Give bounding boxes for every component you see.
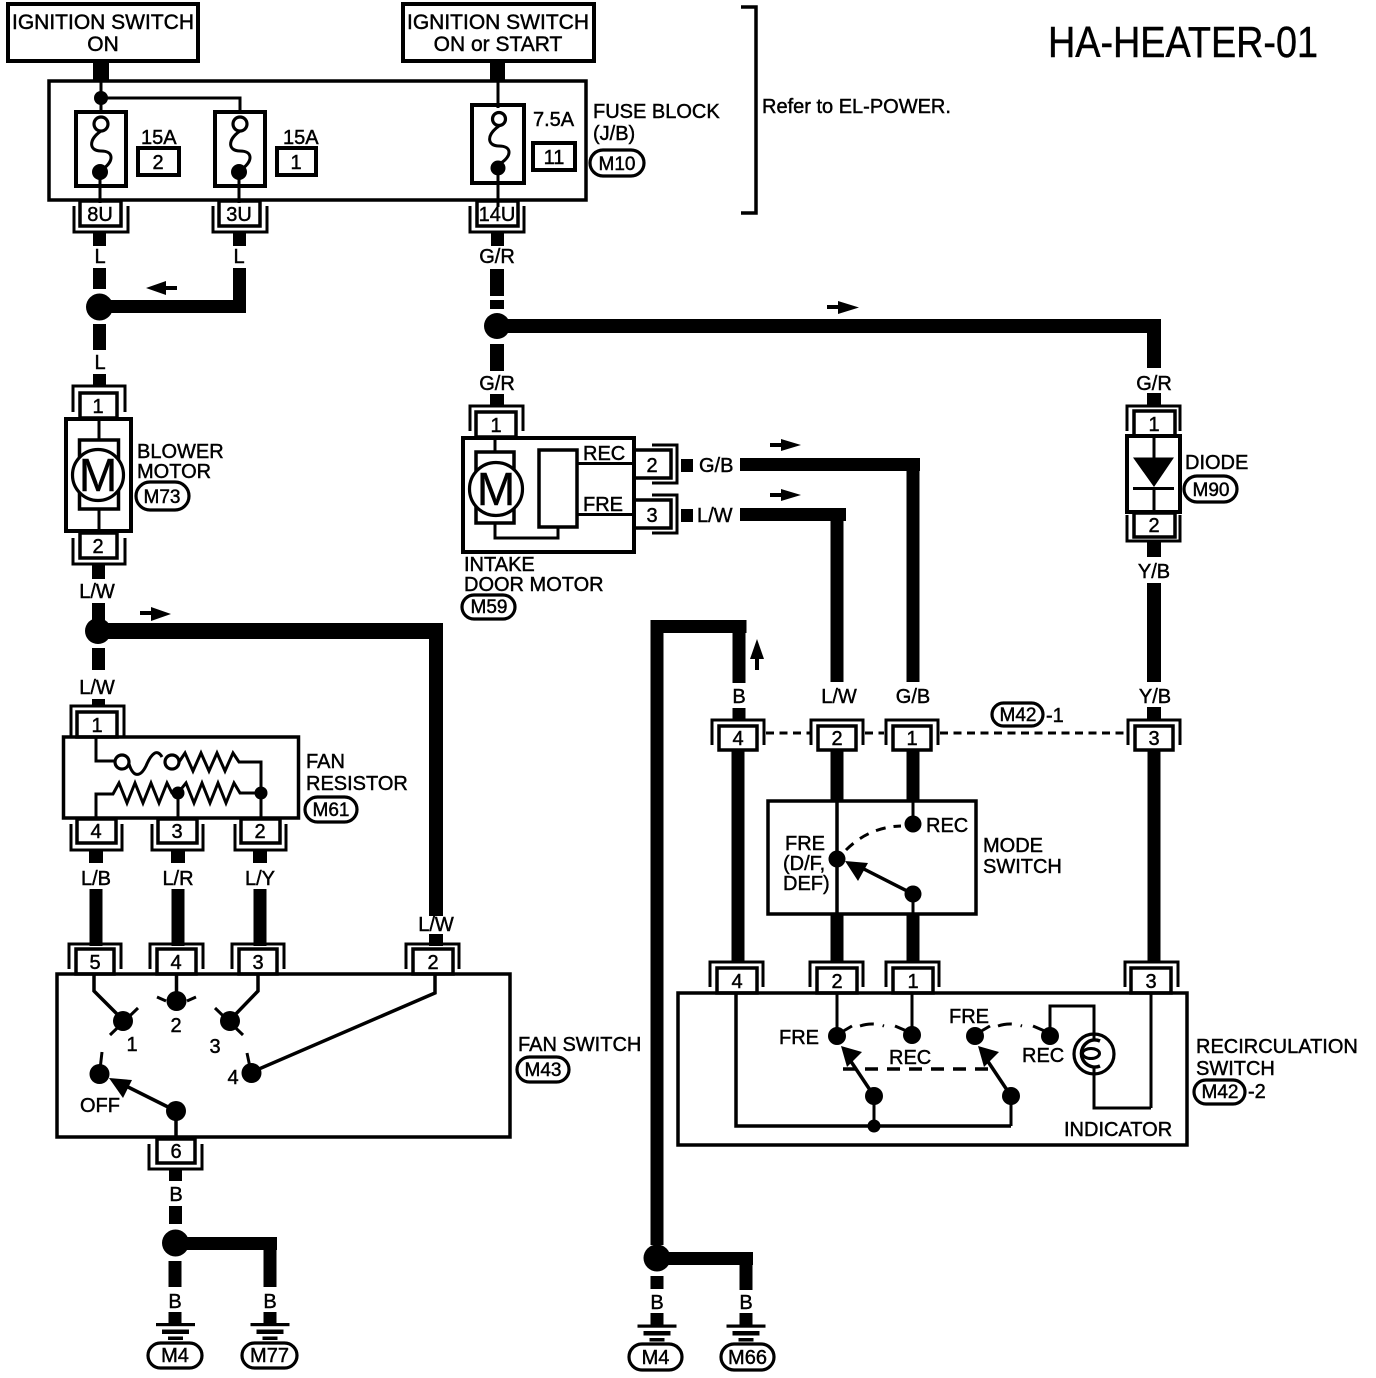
- power source box IGNITION SWITCH ON or START: [403, 4, 594, 61]
- mode switch FRE contact: [829, 851, 846, 868]
- connector 2 fan switch: [406, 944, 459, 974]
- svg-text:M10: M10: [599, 154, 636, 175]
- node junction above fuse 2: [94, 91, 108, 105]
- connector 1 fan resistor: [71, 706, 124, 738]
- mode switch box: [768, 801, 976, 914]
- wire label G/B (motor out): [699, 455, 733, 477]
- svg-text:L/W: L/W: [79, 677, 115, 699]
- svg-text:M77: M77: [250, 1345, 289, 1367]
- svg-text:1: 1: [1148, 414, 1159, 436]
- intake door motor actuator block: [539, 450, 577, 527]
- wire label L/W (fan switch pin 2): [418, 914, 454, 936]
- fuse number box 1: [277, 148, 316, 175]
- fuse 2 (15A): [76, 112, 126, 203]
- ground name oval M4: [148, 1343, 202, 1368]
- svg-text:15A: 15A: [141, 127, 177, 149]
- wire label G/B (M42-1 pin 1): [896, 686, 930, 708]
- svg-text:G/B: G/B: [699, 455, 733, 477]
- blower motor M73: [66, 418, 131, 533]
- svg-text:2: 2: [831, 971, 842, 993]
- mode switch rotor arm with arrow: [845, 861, 913, 894]
- wire G/R dash above connector 1: [490, 394, 504, 406]
- svg-text:3U: 3U: [226, 204, 252, 226]
- svg-text:DIODE: DIODE: [1185, 452, 1248, 474]
- svg-text:4: 4: [732, 728, 743, 750]
- title HA-HEATER-01: [1048, 18, 1318, 67]
- wire label B (fan switch): [169, 1184, 182, 1206]
- connector oval M42-1: [992, 703, 1064, 727]
- svg-text:3: 3: [646, 505, 657, 527]
- svg-text:1: 1: [92, 396, 103, 418]
- svg-text:L/W: L/W: [418, 914, 454, 936]
- connector 3U: [213, 201, 267, 246]
- recirc gang dashed link: [843, 1067, 992, 1071]
- svg-text:REC: REC: [1022, 1045, 1064, 1067]
- svg-text:(J/B): (J/B): [593, 123, 635, 145]
- node resistor tap pin 3: [172, 787, 185, 819]
- svg-text:M73: M73: [144, 487, 181, 508]
- svg-text:B: B: [739, 1292, 752, 1314]
- svg-text:B: B: [168, 1291, 181, 1313]
- resistor wavy link: [129, 753, 162, 775]
- node rail junction: [868, 1120, 881, 1133]
- svg-text:-1: -1: [1046, 705, 1064, 727]
- wire indicator lamp to pin 3: [1094, 993, 1151, 1108]
- connector 1 blower motor: [73, 386, 125, 418]
- wire L/W from M42-1 pin 2 to mode switch: [831, 750, 844, 802]
- svg-text:2: 2: [170, 1015, 181, 1037]
- wire label Y/B (M42-1 pin 3): [1139, 686, 1171, 708]
- mode switch line pin 1 to REC contact: [912, 801, 915, 824]
- connector 3 fan switch: [232, 944, 284, 974]
- connector 2 diode: [1127, 513, 1180, 557]
- svg-text:4: 4: [90, 821, 101, 843]
- recirc switch 2 REC contact: [1022, 1026, 1064, 1067]
- svg-text:IGNITION SWITCH: IGNITION SWITCH: [12, 11, 194, 34]
- svg-text:B: B: [732, 686, 745, 708]
- wire G/R down to diode: [1147, 319, 1161, 368]
- fuse 1 (15A): [215, 112, 265, 203]
- connector 4 M42-1: [712, 720, 764, 750]
- svg-text:INDICATOR: INDICATOR: [1064, 1119, 1172, 1141]
- wire L/W horizontal: [740, 508, 846, 521]
- note Refer to EL-POWER.: [762, 96, 951, 118]
- svg-text:B: B: [169, 1184, 182, 1206]
- connector 4 fan resistor: [71, 819, 122, 863]
- svg-text:4: 4: [227, 1067, 238, 1089]
- connector 1 M42-1: [886, 720, 938, 750]
- wire B down to M77: [264, 1250, 277, 1287]
- node L/W junction: [85, 618, 111, 644]
- wire B stub to ground M4: [169, 1312, 182, 1324]
- svg-text:3: 3: [1145, 971, 1156, 993]
- svg-text:FAN: FAN: [306, 751, 345, 773]
- recirc switch 2 FRE contact: [949, 1006, 990, 1045]
- svg-text:SWITCH: SWITCH: [983, 856, 1062, 878]
- recirculation switch label: [1196, 1036, 1358, 1080]
- wire REC contact to indicator lamp: [1050, 1006, 1094, 1036]
- wire L dashed segment below junction: [93, 324, 106, 350]
- svg-text:M: M: [477, 463, 515, 515]
- svg-text:2: 2: [152, 152, 163, 174]
- wire label L/W (M42-1 pin 2): [821, 686, 857, 708]
- wire L/W vertical to M42-1 pin 2: [831, 508, 844, 682]
- connector 1 recirculation switch: [886, 962, 939, 993]
- svg-text:FRE: FRE: [583, 494, 623, 516]
- svg-text:L/B: L/B: [81, 868, 111, 890]
- wire label L (8U): [94, 246, 105, 268]
- connector 4 fan switch: [150, 944, 203, 974]
- svg-text:SWITCH: SWITCH: [1196, 1058, 1275, 1080]
- fan resistor label: [306, 751, 408, 795]
- connector 3 M42-1: [1128, 720, 1180, 750]
- svg-text:14U: 14U: [479, 204, 516, 226]
- svg-text:3: 3: [252, 952, 263, 974]
- svg-text:3: 3: [171, 821, 182, 843]
- fan switch M43 box: [57, 974, 510, 1137]
- wire label B (M4 right): [650, 1292, 663, 1314]
- svg-text:4: 4: [170, 952, 181, 974]
- wire B from M42-1 pin 4 to recirculation switch: [732, 750, 745, 962]
- wire G/B vertical to M42-1 pin 1: [907, 458, 920, 682]
- svg-text:11: 11: [544, 147, 565, 169]
- wire G/B from M42-1 pin 1 to mode switch: [907, 750, 920, 802]
- wire Y/B from M42-1 pin 3 to recirculation switch: [1148, 750, 1161, 962]
- wire Y/B vertical: [1147, 583, 1161, 682]
- resistor element bottom-right zigzag: [178, 783, 261, 803]
- svg-text:L: L: [233, 246, 244, 268]
- svg-text:B: B: [263, 1291, 276, 1313]
- svg-text:L/W: L/W: [697, 505, 733, 527]
- node G/R junction: [484, 313, 510, 339]
- recirculation switch box: [678, 993, 1187, 1145]
- svg-text:REC: REC: [889, 1047, 931, 1069]
- connector 2 intake door motor: [634, 445, 693, 483]
- connector 2 recirculation switch: [810, 962, 863, 993]
- wire stub ignition 2 to fuse block: [490, 61, 505, 82]
- connector 4 recirculation switch: [710, 962, 763, 993]
- svg-text:REC: REC: [583, 443, 625, 465]
- svg-text:M43: M43: [525, 1060, 562, 1081]
- svg-text:DOOR MOTOR: DOOR MOTOR: [464, 574, 604, 596]
- wire inside fuse block to fuse 2: [101, 82, 240, 112]
- diode label: [1185, 452, 1248, 474]
- svg-text:1: 1: [91, 715, 102, 737]
- arrow up on B wire: [750, 639, 764, 670]
- resistor internal wire from pin 1: [96, 738, 115, 761]
- svg-text:L/Y: L/Y: [245, 868, 275, 890]
- wire B stub above pin 4: [733, 708, 746, 720]
- svg-text:Y/B: Y/B: [1138, 561, 1170, 583]
- wire G/B mode switch to recirculation pin 1: [907, 914, 920, 962]
- svg-text:FUSE BLOCK: FUSE BLOCK: [593, 101, 720, 123]
- connector 2 fan resistor: [235, 819, 286, 863]
- recirc common rail from pin 4: [736, 993, 1011, 1126]
- svg-text:6: 6: [170, 1141, 181, 1163]
- node B junction (left): [162, 1230, 189, 1257]
- svg-text:BLOWER: BLOWER: [137, 441, 224, 463]
- svg-text:FRE: FRE: [949, 1006, 989, 1028]
- node L junction: [86, 294, 113, 321]
- svg-text:1: 1: [290, 152, 301, 174]
- recirc switch 2 rotor arm with arrow: [978, 1046, 1011, 1096]
- svg-text:M59: M59: [471, 597, 508, 618]
- wire L/W stub to pin 2: [429, 934, 443, 946]
- ground symbol M4 (right): [638, 1325, 677, 1342]
- intake door motor label: [464, 554, 604, 596]
- refer bracket: [741, 7, 756, 213]
- wire L/W mode switch to recirculation pin 2: [831, 914, 844, 962]
- svg-text:Y/B: Y/B: [1139, 686, 1171, 708]
- wire G/R stub above diode: [1147, 393, 1161, 406]
- connector oval M90: [1184, 476, 1237, 502]
- connector 2 M42-1: [811, 720, 863, 750]
- arrow right on L/W wire: [140, 607, 171, 621]
- fan resistor M61 box: [64, 737, 299, 818]
- fan switch wire pin2 to contact 4: [252, 975, 435, 1072]
- svg-text:ON: ON: [87, 33, 119, 56]
- svg-text:M61: M61: [313, 800, 350, 821]
- wire label L (3U): [233, 246, 244, 268]
- connector 5 fan switch: [69, 944, 121, 974]
- connector 3 fan resistor: [152, 819, 203, 863]
- wire B stub to ground M4 right: [651, 1313, 664, 1325]
- fan switch wire pin3 to contact 3: [231, 975, 258, 1019]
- wire L/R to fan switch: [172, 889, 185, 946]
- wire stub ignition 1 to fuse block: [93, 61, 109, 82]
- recirc switch 1 REC contact: [889, 993, 931, 1069]
- svg-text:2: 2: [1148, 515, 1159, 537]
- wire B down to M66: [740, 1252, 753, 1290]
- fan switch label: [518, 1034, 641, 1056]
- resistor element top zigzag: [179, 753, 261, 787]
- wire L/Y to fan switch: [254, 889, 267, 946]
- svg-text:MOTOR: MOTOR: [137, 461, 211, 483]
- wire B stub to ground M66: [740, 1313, 753, 1325]
- wire L horizontal to junction: [104, 300, 237, 313]
- wire label G/R (14U): [479, 246, 515, 268]
- svg-text:M4: M4: [642, 1347, 670, 1369]
- ground symbol M4 (left): [156, 1323, 195, 1340]
- svg-text:2: 2: [646, 455, 657, 477]
- wire label L/R: [162, 868, 193, 890]
- wire L dashed segment below 8U: [93, 268, 106, 289]
- ground name oval M77: [242, 1343, 297, 1368]
- fan switch rotor arm with arrow: [109, 1078, 176, 1111]
- svg-text:M4: M4: [161, 1345, 189, 1367]
- wire L/W vertical long to fan switch pin 2: [429, 623, 443, 916]
- connector oval M73: [136, 482, 189, 510]
- svg-text:2: 2: [427, 952, 438, 974]
- wire G/R horizontal to diode column: [503, 319, 1161, 333]
- arrow left on L wire: [146, 281, 177, 295]
- svg-text:B: B: [650, 1292, 663, 1314]
- svg-text:L/W: L/W: [79, 581, 115, 603]
- svg-text:REC: REC: [926, 815, 968, 837]
- fan switch wire pin5 to contact 1: [94, 975, 123, 1020]
- connector oval M42-2: [1194, 1080, 1266, 1104]
- recirc switch 1 rotor arm with arrow: [841, 1046, 874, 1096]
- svg-text:RECIRCULATION: RECIRCULATION: [1196, 1036, 1358, 1058]
- connector oval M43: [517, 1057, 569, 1082]
- svg-text:15A: 15A: [283, 127, 319, 149]
- svg-text:RESISTOR: RESISTOR: [306, 773, 408, 795]
- fuse rating label 7.5A: [533, 109, 575, 131]
- svg-text:1: 1: [906, 728, 917, 750]
- svg-text:Refer to EL-POWER.: Refer to EL-POWER.: [762, 96, 951, 118]
- power source box IGNITION SWITCH ON: [8, 4, 198, 61]
- connector oval M59: [462, 595, 515, 619]
- wire B stub to ground M77: [264, 1312, 277, 1324]
- svg-text:1: 1: [490, 415, 501, 437]
- wire label G/R (intake door motor): [479, 373, 515, 395]
- svg-text:G/R: G/R: [479, 373, 515, 395]
- ground name oval M66: [721, 1344, 774, 1370]
- wire L/W dash: [92, 603, 105, 623]
- wire B dash below pin 6: [169, 1206, 182, 1224]
- fan switch contact 2: [157, 991, 196, 1037]
- svg-text:G/B: G/B: [896, 686, 930, 708]
- fan switch contact 3: [209, 1008, 243, 1058]
- wire G/R dashes below 14U: [490, 269, 504, 309]
- label FRE row: [577, 494, 634, 516]
- connector 8U: [74, 201, 128, 246]
- svg-text:2: 2: [831, 728, 842, 750]
- connector 3 intake door motor: [634, 495, 693, 533]
- intake door motor M59 box: [463, 438, 634, 552]
- svg-text:M: M: [79, 449, 117, 501]
- connector oval M10: [590, 150, 644, 176]
- wire L/W dashed below junction: [92, 648, 105, 670]
- recirc switch 2 dashed arc: [998, 1024, 1022, 1026]
- connector 1 diode: [1127, 406, 1180, 436]
- wire B down to M42-1 pin 4: [733, 633, 746, 683]
- resistor terminal circle A: [115, 755, 129, 769]
- fuse 11 (7.5A): [472, 105, 524, 207]
- svg-text:M66: M66: [728, 1347, 767, 1369]
- wire L from 3U down: [233, 268, 246, 313]
- connector 1 intake door motor: [470, 406, 523, 437]
- wire B long vertical to ground junction: [651, 620, 664, 1245]
- ground symbol M66: [727, 1325, 766, 1342]
- svg-text:FRE: FRE: [785, 833, 825, 855]
- svg-text:3: 3: [1148, 728, 1159, 750]
- fuse number box 2: [138, 148, 179, 175]
- intake door motor inner housing: [476, 452, 514, 523]
- svg-text:1: 1: [126, 1034, 137, 1056]
- recirc switch 1 common: [865, 1087, 883, 1126]
- svg-text:-2: -2: [1248, 1081, 1266, 1103]
- indicator lamp: [1074, 1034, 1114, 1074]
- wire label Y/B (below diode): [1138, 561, 1170, 583]
- wire B top jog: [651, 620, 747, 633]
- svg-text:1: 1: [907, 971, 918, 993]
- svg-text:L: L: [94, 352, 105, 374]
- wire B horizontal to M66 branch: [662, 1252, 753, 1265]
- svg-text:DEF): DEF): [783, 873, 830, 895]
- fuse block label FUSE BLOCK (J/B): [593, 101, 720, 145]
- motor wire from pin 1: [494, 439, 497, 453]
- wire label L (blower): [94, 352, 105, 374]
- wire Y/B stub above M42-1 pin 3: [1147, 707, 1161, 720]
- svg-text:3: 3: [209, 1036, 220, 1058]
- mode switch dashed arc: [846, 826, 901, 850]
- arrow right on G/B wire: [770, 439, 801, 451]
- wire label L/W (fan resistor in): [79, 677, 115, 699]
- svg-text:M90: M90: [1193, 480, 1230, 501]
- wire G/B horizontal: [740, 458, 920, 471]
- svg-text:M42: M42: [1202, 1082, 1239, 1103]
- connector 6 fan switch: [149, 1139, 202, 1181]
- arrow right on L/W wire: [770, 489, 801, 501]
- wire L/W dash above resistor connector: [92, 699, 105, 707]
- fan switch contact 1: [110, 1008, 138, 1056]
- svg-text:HA-HEATER-01: HA-HEATER-01: [1048, 18, 1318, 67]
- resistor terminal circle B: [165, 755, 179, 769]
- arrow right on G/R wire: [827, 301, 859, 314]
- svg-text:MODE: MODE: [983, 835, 1043, 857]
- svg-text:L: L: [94, 246, 105, 268]
- blower motor label: [137, 441, 224, 483]
- motor internal link wire: [495, 523, 558, 538]
- svg-text:L/R: L/R: [162, 868, 193, 890]
- recirc switch 1 FRE contact: [779, 993, 852, 1049]
- svg-text:G/R: G/R: [479, 246, 515, 268]
- wire label B (M66): [739, 1292, 752, 1314]
- mode switch label: [983, 835, 1062, 878]
- fuse number box 11: [533, 143, 575, 170]
- wire label G/R (diode): [1136, 373, 1172, 395]
- svg-text:2: 2: [254, 821, 265, 843]
- svg-text:2: 2: [92, 536, 103, 558]
- fan switch contact OFF: [80, 1052, 120, 1117]
- wire G/R dash below junction: [490, 344, 504, 371]
- svg-text:INTAKE: INTAKE: [464, 554, 535, 576]
- svg-text:FAN SWITCH: FAN SWITCH: [518, 1034, 641, 1056]
- motor symbol M: [470, 463, 523, 516]
- wire B horizontal to M77 branch: [180, 1237, 277, 1250]
- svg-text:IGNITION SWITCH: IGNITION SWITCH: [407, 11, 589, 34]
- mode switch FRE label: [783, 833, 830, 895]
- wire L/B to fan switch: [90, 889, 103, 946]
- svg-text:G/R: G/R: [1136, 373, 1172, 395]
- fuse block (J/B) box M10: [49, 81, 586, 200]
- indicator label: [1064, 1119, 1172, 1141]
- svg-text:(D/F,: (D/F,: [783, 853, 825, 875]
- wire L dash above blower connector: [93, 374, 106, 385]
- svg-text:ON or START: ON or START: [434, 33, 563, 56]
- node B ground junction (right): [644, 1245, 671, 1272]
- wire B dash below right junction: [651, 1276, 664, 1289]
- svg-text:8U: 8U: [87, 204, 113, 226]
- fan switch common contact: [166, 1101, 186, 1137]
- connector 14U: [470, 201, 524, 246]
- recirc switch 1 dashed arc: [860, 1024, 884, 1026]
- wire B dash below junction: [169, 1261, 182, 1287]
- connector 3 recirculation switch: [1125, 962, 1178, 993]
- svg-text:4: 4: [731, 971, 742, 993]
- node resistor tap pin 2: [255, 787, 268, 819]
- wire inside fuse block to fuse 11: [497, 82, 500, 108]
- connector 2 blower motor: [73, 533, 125, 579]
- connector row dashed link: [766, 732, 1126, 735]
- label REC row: [577, 443, 634, 465]
- wire label B (M42-1 pin 4): [732, 686, 745, 708]
- svg-text:FRE: FRE: [779, 1027, 819, 1049]
- wire label L/Y: [245, 868, 275, 890]
- svg-text:L/W: L/W: [821, 686, 857, 708]
- fuse rating label 15A: [283, 127, 319, 149]
